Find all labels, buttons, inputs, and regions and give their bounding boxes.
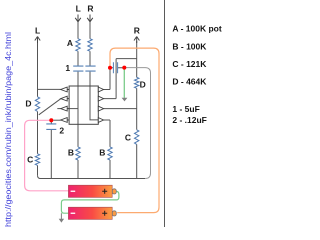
svg-text:2: 2 (59, 126, 64, 136)
svg-text:C: C (27, 155, 33, 165)
svg-text:1 - 5uF: 1 - 5uF (172, 104, 199, 114)
svg-text:C - 121K: C - 121K (172, 59, 207, 69)
svg-text:A - 100K pot: A - 100K pot (172, 24, 221, 34)
svg-text:D: D (140, 79, 146, 89)
svg-text:A: A (67, 38, 73, 48)
svg-text:2 - .12uF: 2 - .12uF (172, 115, 206, 125)
svg-text:B - 100K: B - 100K (172, 41, 207, 51)
svg-text:B: B (68, 148, 74, 158)
svg-text:R: R (87, 4, 93, 14)
svg-text:L: L (76, 4, 81, 14)
svg-text:D - 464K: D - 464K (172, 77, 207, 87)
svg-text:http://geocities.com/rubin_ink: http://geocities.com/rubin_ink/rubin/pag… (3, 32, 13, 227)
svg-text:D: D (25, 99, 31, 109)
svg-text:R: R (134, 26, 140, 36)
svg-text:B: B (99, 148, 105, 158)
svg-text:1: 1 (65, 63, 70, 73)
svg-text:C: C (125, 133, 131, 143)
svg-text:L: L (35, 25, 40, 35)
